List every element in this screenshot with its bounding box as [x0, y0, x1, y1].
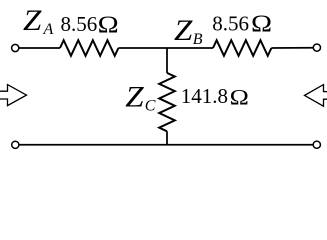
- resistor R2 (Z_B, 8.56 ohm): [213, 40, 271, 56]
- svg-text:8.56: 8.56: [61, 12, 98, 36]
- wire top-left lead: [19, 47, 60, 49]
- terminal bottom-left: [12, 141, 19, 148]
- resistor R3 (Z_C, 141.8 ohm) vertical: [159, 73, 175, 131]
- resistor R1 (Z_A, 8.56 ohm): [60, 40, 118, 56]
- wire bottom: [19, 144, 313, 146]
- svg-text:A: A: [43, 21, 54, 38]
- svg-text:Ω: Ω: [230, 85, 249, 110]
- wire vertical lower: [166, 131, 168, 145]
- svg-text:Ω: Ω: [251, 11, 272, 38]
- svg-text:C: C: [145, 98, 156, 115]
- terminal top-right: [313, 44, 320, 51]
- terminal bottom-right: [313, 141, 320, 148]
- port arrow left (input): [0, 85, 27, 106]
- wire top-middle: [118, 47, 213, 49]
- node B junction vertical wire upper: [166, 48, 168, 73]
- svg-text:B: B: [193, 31, 203, 48]
- svg-text:141.8: 141.8: [181, 84, 228, 108]
- svg-text:Ω: Ω: [98, 12, 119, 39]
- svg-text:Z: Z: [125, 80, 144, 113]
- terminal top-left: [12, 44, 19, 51]
- svg-text:Z: Z: [174, 13, 193, 46]
- wire top-right lead: [271, 47, 313, 49]
- port arrow right (output): [305, 85, 327, 107]
- svg-text:Z: Z: [23, 3, 42, 36]
- svg-text:8.56: 8.56: [212, 12, 249, 36]
